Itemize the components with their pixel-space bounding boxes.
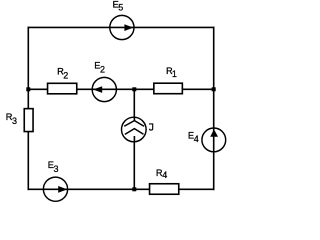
label E2 [94, 61, 105, 75]
label E4 [188, 131, 199, 144]
resistor R3 [24, 109, 33, 132]
resistor R2 [48, 83, 77, 94]
svg-text:2: 2 [100, 64, 105, 74]
svg-text:1: 1 [172, 69, 177, 79]
svg-text:3: 3 [12, 116, 17, 126]
wire middle horizontal [28, 88, 213, 90]
resistor R4 [150, 184, 179, 195]
resistor R1 [154, 83, 183, 94]
wire top [28, 26, 213, 28]
node junction center-middle [132, 87, 136, 91]
svg-text:5: 5 [118, 2, 123, 12]
svg-text:2: 2 [63, 71, 68, 81]
wire bottom [28, 188, 213, 190]
wire right [213, 27, 215, 189]
label R2 [57, 67, 68, 81]
current source J [122, 117, 147, 142]
svg-text:3: 3 [54, 164, 59, 174]
label R3 [6, 112, 17, 126]
voltage source E5 [110, 15, 134, 39]
node junction right-middle [212, 87, 216, 91]
label R1 [166, 66, 177, 79]
voltage source E3 [43, 177, 67, 201]
node junction left-middle [26, 87, 30, 91]
label R4 [156, 168, 167, 180]
svg-text:4: 4 [194, 134, 199, 144]
label J [149, 124, 153, 130]
svg-text:4: 4 [162, 170, 167, 180]
voltage source E4 [202, 128, 226, 152]
wire left [27, 27, 29, 189]
label E5 [113, 0, 124, 12]
voltage source E2 [92, 77, 116, 101]
label E3 [48, 160, 59, 174]
wire middle vertical [133, 89, 135, 189]
node junction center-bottom [132, 187, 136, 191]
